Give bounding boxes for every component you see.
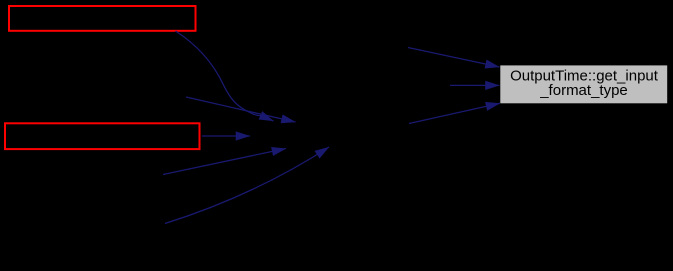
edge E1: box1 -> hidden middle node (curved) [176, 31, 274, 121]
edge E5: hidden node -> hidden middle node (long, slight curve) [165, 147, 329, 224]
edge E3: box2 -> hidden middle node (horizontal) [202, 135, 250, 137]
edge E4: hidden node -> hidden middle node (from lower left) [163, 149, 286, 175]
edge E7: hidden node -> grey node (horizontal) [450, 84, 500, 86]
node: caller box 2 (red, mid-left, hidden label) [5, 123, 200, 149]
edge E2: hidden node -> hidden middle node (straight) [186, 97, 296, 122]
svg-text:_format_type: _format_type [539, 82, 628, 99]
edge E6: hidden node -> grey node (upper) [408, 48, 500, 68]
node: OutputTime::get_input_format_type (grey, current function) [500, 65, 667, 103]
edge E8: hidden middle node -> grey node (lower) [409, 103, 500, 123]
node: caller box 1 (red, top-left, hidden label) [9, 6, 196, 31]
